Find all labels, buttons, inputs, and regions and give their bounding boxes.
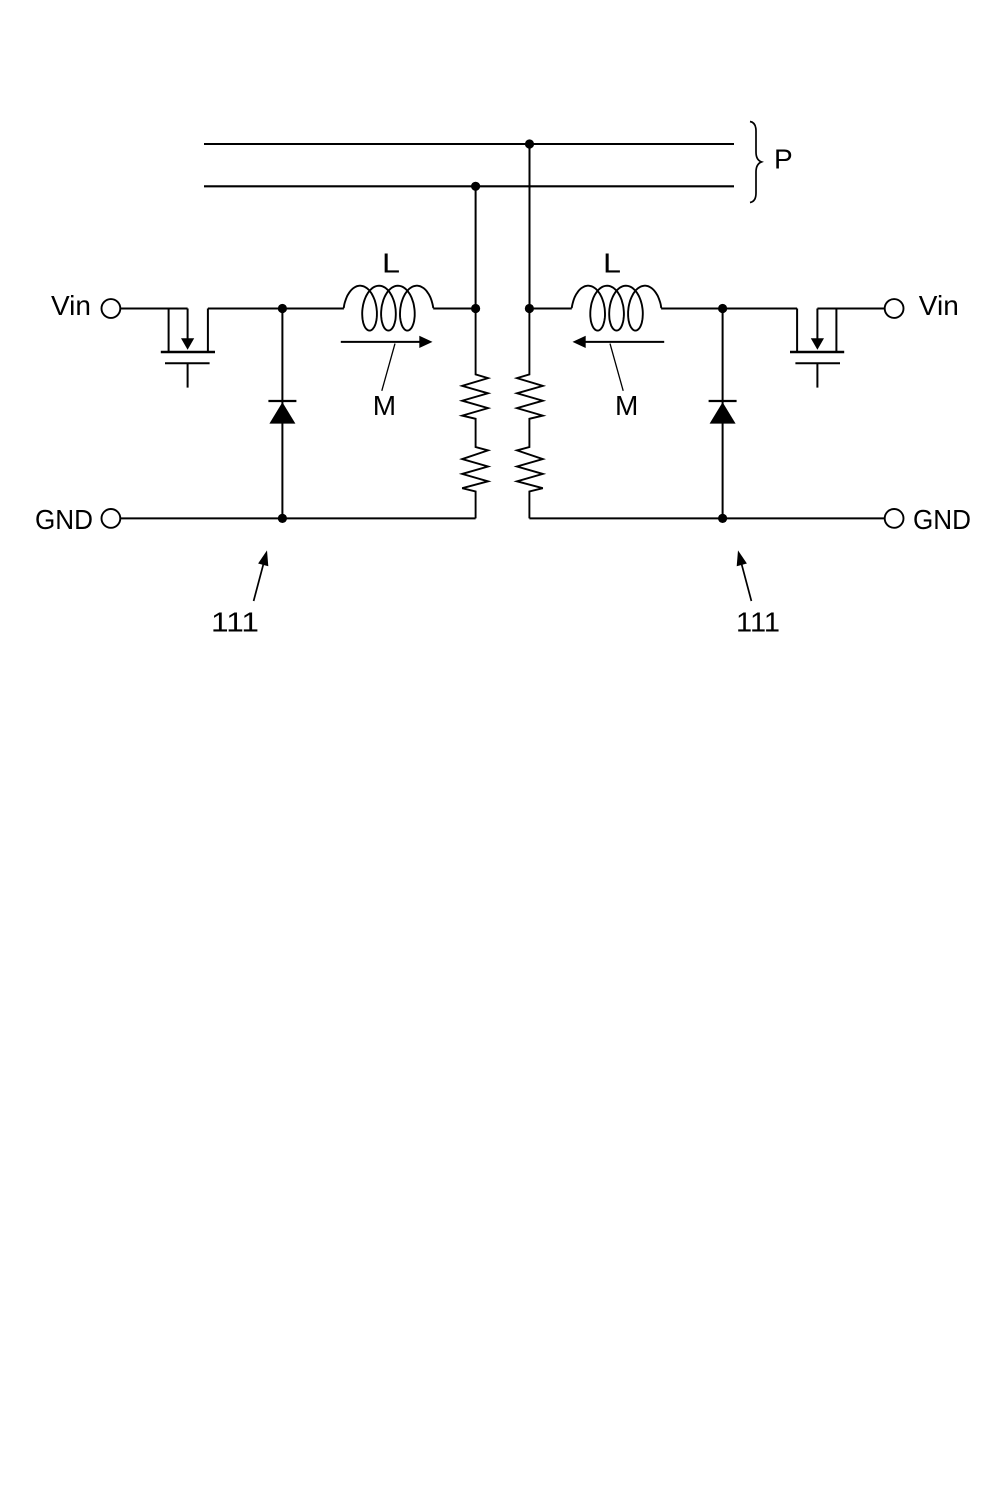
wire from upper bus to right transformer winding	[529, 144, 531, 309]
brace for P	[750, 122, 762, 203]
svg-text:GND: GND	[913, 504, 971, 535]
left buck converter cell 111	[102, 286, 489, 601]
svg-text:Vin: Vin	[51, 290, 91, 321]
svg-text:111: 111	[211, 607, 259, 638]
svg-text:111: 111	[736, 607, 780, 638]
node dot on upper bus	[525, 139, 534, 148]
svg-text:P: P	[774, 144, 793, 175]
svg-text:M: M	[615, 390, 638, 421]
svg-text:GND: GND	[35, 504, 93, 535]
node dot on lower bus	[471, 182, 480, 191]
right buck converter cell 111 (mirrored)	[517, 286, 904, 601]
svg-text:L: L	[603, 248, 621, 279]
svg-text:L: L	[382, 248, 400, 279]
wire from lower bus to left transformer winding	[475, 186, 477, 308]
svg-text:M: M	[373, 390, 396, 421]
wire bus line upper (P)	[204, 143, 734, 145]
wire bus line lower (P)	[204, 185, 734, 187]
svg-text:Vin: Vin	[919, 290, 959, 321]
